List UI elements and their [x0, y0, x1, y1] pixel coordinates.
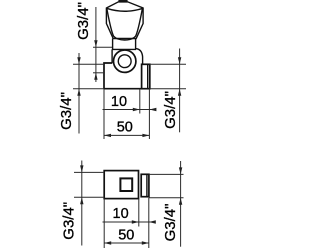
nipple bottom fig	[141, 174, 149, 196]
body bottom	[104, 88, 149, 90]
vertical extension lines for 10/50	[104, 89, 149, 139]
svg-text:10: 10	[111, 94, 127, 110]
svg-text:G3/4": G3/4"	[75, 2, 92, 40]
extension line nipple bottom right	[149, 197, 184, 199]
svg-text:G3/4": G3/4"	[162, 91, 179, 129]
knob cap	[118, 0, 127, 2]
body step and left edge	[104, 63, 112, 89]
collar top line left segment + extension line	[93, 46, 113, 48]
svg-text:50: 50	[117, 119, 133, 135]
knob outline	[106, 2, 143, 39]
svg-text:G3/4": G3/4"	[58, 92, 75, 130]
extension line body bottom right	[149, 88, 186, 90]
svg-text:G3/4": G3/4"	[162, 204, 179, 242]
nipple thread groove	[147, 64, 149, 88]
svg-text:10: 10	[113, 206, 129, 222]
nipple groove bottom fig	[146, 174, 148, 196]
extension line nipple top right	[149, 63, 186, 65]
body square	[104, 171, 138, 199]
outlet circle outer	[114, 50, 136, 72]
extension line nipple top right	[149, 173, 184, 175]
dim L2 G3/4 left	[78, 53, 80, 134]
collar top line right segment	[112, 49, 143, 65]
dim R1b G3/4 bottom-right	[180, 161, 182, 247]
extension line body bottom left	[74, 196, 104, 198]
dim 10 top	[103, 109, 157, 111]
nipple	[142, 64, 150, 88]
dim L3 G3/4 top	[95, 7, 97, 82]
dim 50 top	[104, 134, 149, 136]
dim 50 bottom	[104, 242, 149, 244]
outlet circle inner	[118, 55, 131, 68]
extension line circle bottom	[93, 72, 104, 74]
collar left edge sliver	[111, 49, 113, 63]
dim 10 bottom	[103, 221, 156, 223]
vertical extension lines bottom fig	[104, 198, 149, 248]
front square port	[120, 178, 132, 191]
dim R1 G3/4 right	[179, 49, 181, 133]
extension line body bottom left	[73, 88, 104, 90]
svg-text:G3/4": G3/4"	[61, 202, 78, 240]
neck	[113, 39, 136, 50]
knob dome face	[107, 9, 143, 41]
svg-text:50: 50	[118, 228, 134, 244]
extension line body top left	[74, 171, 104, 173]
dim L2b G3/4 bottom-left	[81, 161, 83, 246]
knob top arc	[107, 8, 143, 11]
extension line nipple top left	[73, 63, 104, 65]
